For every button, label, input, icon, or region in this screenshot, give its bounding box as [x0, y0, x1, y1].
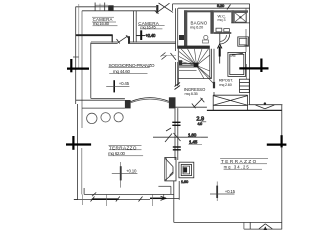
- node dim arrows: [165, 128, 181, 142]
- node dim arrow right: [150, 196, 166, 200]
- window W2 right wall ladder box: [240, 79, 250, 92]
- wall living top right part: [128, 41, 176, 43]
- door D6 living leaf: [161, 53, 177, 61]
- bath bottom wall thick: [177, 46, 210, 49]
- dimension line bottom: [74, 199, 150, 201]
- door D4 porch leaf: [192, 98, 205, 108]
- node hatch ticks divider top: [172, 122, 180, 125]
- wall terrace divider upper: [174, 108, 176, 160]
- level mark +2.40 camera zone: [137, 30, 146, 40]
- node step vertical: [249, 222, 251, 229]
- fixture sink bath: [204, 35, 208, 39]
- skylight nested squares: [179, 162, 194, 178]
- cross axis D right bottom: [267, 135, 287, 147]
- wall living bottom outer: [76, 99, 125, 101]
- svg-text:mq 8.35: mq 8.35: [185, 91, 199, 96]
- shaft room left wall: [231, 10, 234, 23]
- wall terrace divider lower: [173, 181, 175, 200]
- node door jamb dark living: [128, 36, 130, 43]
- room camera2 label: [138, 21, 160, 30]
- svg-text:SOGGIORNO-PRANZO: SOGGIORNO-PRANZO: [109, 63, 155, 68]
- node small box corridor: [238, 37, 249, 46]
- wall cap bottom: [164, 198, 180, 200]
- svg-text:mq 3: mq 3: [218, 18, 226, 22]
- svg-text:1.60: 1.60: [188, 132, 197, 137]
- bay niche left of wall: [165, 158, 176, 181]
- elevator inner box: [230, 54, 244, 74]
- node tick inner bottom line: [92, 192, 96, 196]
- node window block: [108, 5, 113, 10]
- wall camera1 camera2 divider: [132, 11, 134, 43]
- svg-text:+0.15: +0.15: [225, 189, 236, 194]
- pillar P2: [169, 97, 176, 108]
- svg-text:4.0: 4.0: [198, 122, 203, 126]
- window W1 top wall: [95, 3, 108, 11]
- node dark jamb block: [179, 35, 184, 40]
- cross axis B right top: [239, 59, 268, 73]
- column C3: [114, 113, 123, 122]
- column C1: [87, 113, 97, 123]
- wire tick top right: [227, 5, 231, 10]
- wall living left: [90, 43, 92, 99]
- pillar P1: [125, 100, 131, 108]
- wall corridor right of stairs: [213, 49, 215, 82]
- room ripostiglio label: [219, 78, 233, 87]
- dimension line middle: [153, 136, 208, 138]
- node caret mark: [259, 224, 273, 229]
- svg-text:5.20: 5.20: [217, 3, 225, 8]
- door D5 french X: [213, 95, 247, 110]
- terrace bottom inner: [84, 193, 174, 195]
- stair right wall double: [209, 49, 211, 79]
- wire jog between top walls: [172, 4, 174, 11]
- svg-text:+2.40: +2.40: [146, 33, 156, 38]
- wall wc bottom: [214, 32, 232, 34]
- svg-text:1.60: 1.60: [181, 179, 189, 184]
- node skylight dark center: [183, 167, 187, 172]
- boundary bottom line: [174, 221, 282, 223]
- stair left wall: [177, 49, 179, 85]
- node hatch ticks stair wall bottom: [175, 83, 181, 90]
- wall right inner segments: [245, 8, 247, 23]
- level mark +0.15 terrace right: [210, 182, 235, 202]
- elevator top diagonal: [232, 53, 243, 55]
- level mark +0.45 living: [106, 80, 129, 92]
- cross axis A left top: [67, 59, 89, 72]
- bath left wall: [184, 10, 187, 48]
- wall shaft bottom: [231, 22, 249, 24]
- porch slab edge left: [82, 107, 125, 109]
- door D1 entrance top: [155, 3, 174, 14]
- wall segment dark below: [213, 82, 215, 89]
- wall living stair divider lower: [175, 62, 177, 86]
- wall left third faint: [78, 4, 80, 69]
- cross axis C left bottom: [66, 136, 91, 150]
- svg-text:+0.45: +0.45: [119, 81, 130, 86]
- svg-text:+0.10: +0.10: [126, 169, 137, 174]
- fence line to bottom: [173, 200, 175, 223]
- node tick right wall: [244, 45, 248, 46]
- room living label: [109, 63, 155, 74]
- bath right wall: [210, 10, 213, 34]
- wall left outer: [75, 7, 77, 104]
- room camera1 label: [93, 17, 113, 26]
- wall living top left part: [91, 41, 118, 43]
- stairs treads: [179, 63, 194, 67]
- terrace bottom corner verticals: [83, 188, 85, 194]
- wall bottom left corner: [74, 199, 78, 201]
- wall left inner lower: [81, 148, 83, 194]
- node hatch ticks divider mid: [173, 147, 181, 150]
- room terrace left label: [108, 145, 137, 156]
- node extension lines bottom: [83, 194, 153, 206]
- wall living bottom inner: [91, 97, 125, 99]
- room ingresso label: [184, 87, 206, 96]
- boundary top right line: [248, 104, 282, 106]
- room terrace right label: [221, 159, 258, 169]
- node step L: [158, 185, 171, 187]
- arch between pillars: [131, 98, 169, 102]
- stairs winder fan: [179, 49, 214, 84]
- node door jamb dark: [156, 5, 158, 13]
- boundary right edge: [281, 105, 283, 230]
- svg-text:mq 44.60: mq 44.60: [113, 69, 130, 74]
- wire top wall inner left block: [82, 10, 156, 12]
- svg-text:4.50: 4.50: [230, 54, 236, 58]
- door D2 living leaf: [117, 35, 130, 43]
- wall camera2 stair divider: [175, 8, 177, 51]
- sill line terrace step: [207, 109, 282, 111]
- gate mark V: [256, 105, 275, 109]
- node caret triangle: [264, 226, 268, 230]
- wire top wall outer left block: [76, 6, 157, 8]
- stair bottom line: [178, 78, 211, 80]
- node gate dot: [264, 102, 266, 104]
- shaft room box with X: [235, 13, 247, 23]
- svg-text:mq 6.20: mq 6.20: [190, 24, 204, 29]
- svg-text:mq 62.00: mq 62.00: [108, 151, 125, 156]
- wire top wall inner right block: [178, 7, 250, 9]
- door D3 corridor arc: [220, 34, 230, 44]
- porch slab edge right: [176, 106, 207, 108]
- node tick left wall: [73, 56, 79, 58]
- wall left inner: [81, 11, 83, 128]
- node dim ticks bottom: [91, 197, 143, 202]
- wall camera1 bottom thick: [76, 34, 113, 36]
- boundary bottom line2: [244, 228, 282, 230]
- stair arrow up: [217, 44, 222, 64]
- level mark +0.10 terrace left: [112, 162, 138, 188]
- svg-text:1.45: 1.45: [189, 140, 198, 145]
- wall wc top band: [214, 10, 232, 12]
- fixture wc rects: [216, 28, 222, 32]
- shaft room top wall: [231, 10, 248, 12]
- room bath label: [190, 21, 208, 30]
- node shaft dot: [239, 16, 241, 18]
- column C2: [101, 113, 110, 122]
- svg-text:mq 34.25: mq 34.25: [224, 164, 250, 169]
- room wc label: [218, 14, 227, 23]
- svg-text:mq 2.60: mq 2.60: [219, 83, 231, 87]
- wall step vertical: [111, 35, 113, 42]
- wall right outer: [249, 4, 251, 105]
- node dark window block stair wall: [179, 60, 182, 65]
- elevator outer box: [228, 52, 246, 76]
- wire top wall outer right block: [173, 3, 250, 5]
- bath top wall: [184, 10, 214, 12]
- node stair newel dark: [194, 63, 199, 68]
